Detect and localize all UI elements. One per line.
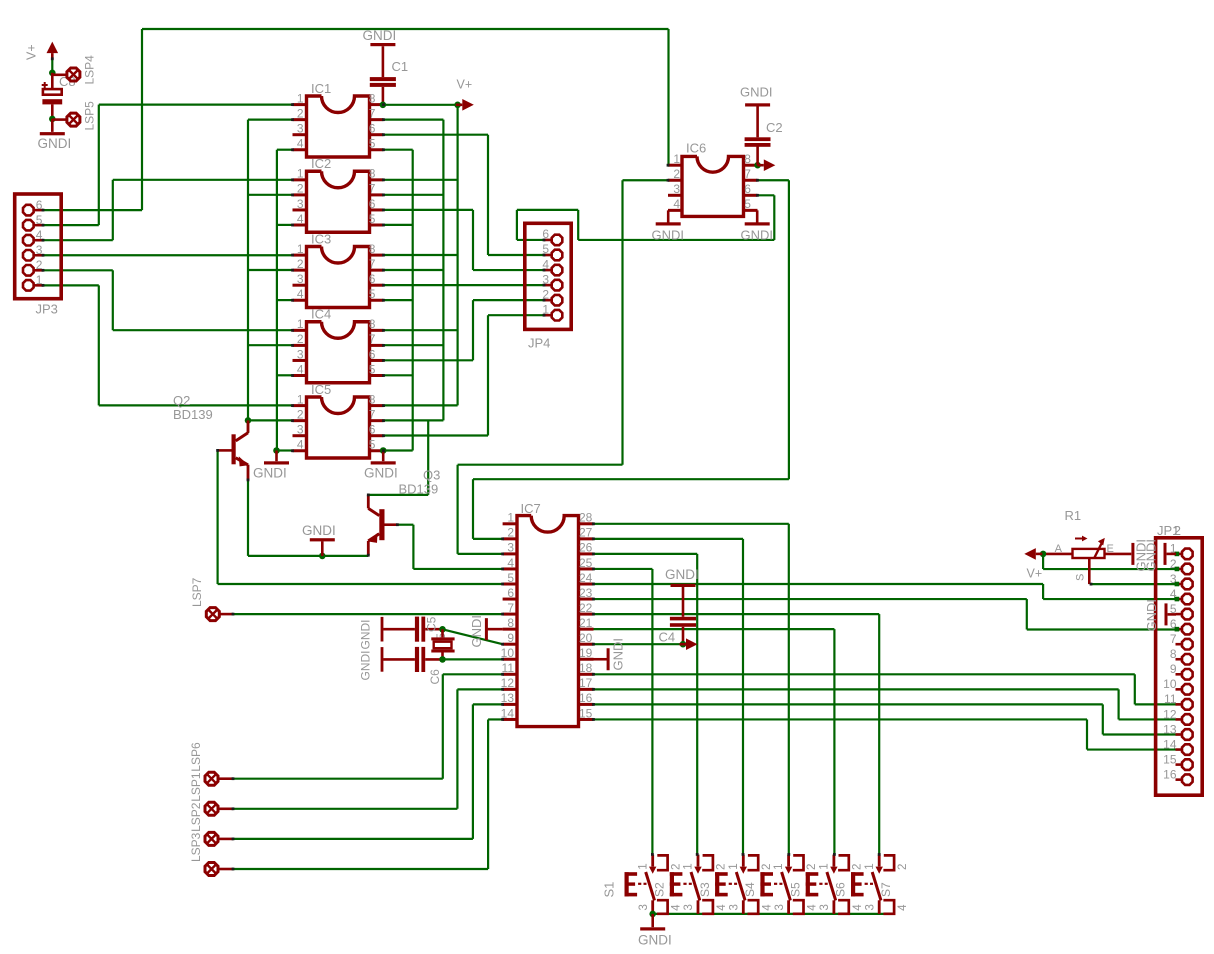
svg-text:1: 1 [864,863,876,869]
svg-text:2: 2 [297,182,304,196]
svg-text:1: 1 [683,863,695,869]
svg-text:6: 6 [507,586,514,600]
svg-text:6: 6 [744,182,751,196]
svg-text:4: 4 [297,212,304,226]
svg-text:A: A [1055,543,1063,555]
svg-text:7: 7 [369,257,376,271]
svg-text:LSP1: LSP1 [189,772,203,802]
svg-text:LSP7: LSP7 [190,577,204,607]
svg-text:2: 2 [297,106,304,120]
svg-text:11: 11 [1164,692,1177,706]
svg-text:GNDI: GNDI [740,85,773,100]
svg-text:S7: S7 [879,882,893,897]
svg-text:1: 1 [297,317,304,331]
svg-text:23: 23 [579,586,593,600]
svg-text:4: 4 [297,287,304,301]
svg-text:5: 5 [369,137,376,151]
svg-text:14: 14 [1163,737,1177,751]
svg-text:GNDI: GNDI [38,136,72,151]
svg-text:5: 5 [369,438,376,452]
svg-text:18: 18 [579,661,593,675]
svg-text:3: 3 [297,122,304,136]
svg-text:7: 7 [744,167,751,181]
svg-text:2: 2 [297,407,304,421]
svg-text:3: 3 [297,423,304,437]
svg-text:7: 7 [369,106,376,120]
svg-text:GNDI: GNDI [253,466,287,481]
svg-text:GNDI: GNDI [364,466,398,481]
svg-text:8: 8 [369,317,376,331]
svg-text:8: 8 [744,152,751,166]
svg-text:LSP2: LSP2 [189,802,203,832]
svg-text:16: 16 [1163,767,1177,781]
svg-text:LSP3: LSP3 [189,832,203,862]
svg-text:1: 1 [637,863,649,869]
svg-text:4: 4 [297,362,304,376]
svg-text:15: 15 [1163,752,1177,766]
svg-text:2: 2 [1174,523,1181,538]
svg-text:GNDI: GNDI [359,651,373,681]
svg-text:12: 12 [1163,707,1177,721]
svg-text:8: 8 [369,167,376,181]
svg-text:6: 6 [369,197,376,211]
svg-text:GNDI: GNDI [1144,539,1159,572]
svg-text:S1: S1 [602,882,617,898]
svg-text:27: 27 [579,526,593,540]
svg-text:V+: V+ [1027,567,1043,581]
svg-text:22: 22 [579,601,593,615]
svg-text:BD139: BD139 [399,482,439,497]
svg-text:6: 6 [369,347,376,361]
svg-text:8: 8 [369,91,376,105]
svg-text:1: 1 [297,392,304,406]
svg-text:4: 4 [673,197,680,211]
svg-text:1: 1 [297,91,304,105]
svg-text:24: 24 [579,571,593,585]
svg-text:GNDI: GNDI [611,638,626,671]
svg-text:7: 7 [369,182,376,196]
svg-text:9: 9 [507,631,514,645]
svg-text:19: 19 [579,646,593,660]
svg-text:4: 4 [852,904,864,911]
svg-text:21: 21 [579,616,593,630]
svg-text:BD139: BD139 [173,407,213,422]
svg-text:4: 4 [507,556,514,570]
svg-text:3: 3 [819,904,831,910]
svg-text:7: 7 [507,601,514,615]
svg-text:15: 15 [579,706,593,720]
svg-text:IC7: IC7 [521,501,541,516]
svg-text:Q2: Q2 [173,393,190,408]
svg-text:4: 4 [807,904,819,911]
svg-text:26: 26 [579,541,593,555]
svg-text:JP4: JP4 [528,336,550,351]
svg-text:JP3: JP3 [36,302,58,317]
svg-text:GNDI: GNDI [665,567,699,582]
svg-text:LSP5: LSP5 [83,101,97,131]
svg-text:1: 1 [297,242,304,256]
svg-text:C4: C4 [659,630,676,645]
svg-text:GNDI: GNDI [652,228,685,243]
svg-text:GNDI: GNDI [469,615,484,648]
svg-text:4: 4 [671,904,683,911]
svg-text:V+: V+ [25,44,39,60]
svg-text:1: 1 [819,863,831,869]
svg-text:10: 10 [1163,677,1177,691]
svg-text:16: 16 [579,691,593,705]
svg-text:C2: C2 [766,120,783,135]
svg-text:LSP6: LSP6 [189,742,203,772]
svg-text:GNDI: GNDI [363,28,397,43]
svg-text:7: 7 [369,407,376,421]
svg-text:4: 4 [761,904,773,911]
svg-text:8: 8 [1170,647,1177,661]
svg-text:3: 3 [673,182,680,196]
svg-text:1: 1 [507,511,514,525]
svg-text:1: 1 [673,152,680,166]
svg-text:S: S [1075,574,1087,581]
svg-text:17: 17 [579,676,593,690]
svg-text:5: 5 [369,287,376,301]
svg-text:5: 5 [507,571,514,585]
svg-text:6: 6 [369,122,376,136]
svg-text:2: 2 [761,864,773,870]
svg-text:R1: R1 [1065,508,1082,523]
svg-text:IC6: IC6 [686,141,706,156]
svg-text:4: 4 [897,904,909,911]
svg-text:3: 3 [297,272,304,286]
svg-text:9: 9 [1170,662,1177,676]
svg-text:3: 3 [297,347,304,361]
svg-text:6: 6 [369,272,376,286]
svg-text:3: 3 [774,904,786,910]
svg-text:2: 2 [716,864,728,870]
svg-text:8: 8 [369,242,376,256]
svg-text:2: 2 [507,526,514,540]
svg-text:GNDI: GNDI [638,933,672,948]
svg-text:4: 4 [297,137,304,151]
svg-text:2: 2 [852,864,864,870]
svg-text:8: 8 [369,392,376,406]
svg-text:GNDI: GNDI [741,228,774,243]
svg-text:V+: V+ [457,78,473,92]
svg-text:2: 2 [297,332,304,346]
svg-text:C1: C1 [392,59,409,74]
svg-text:28: 28 [579,511,593,525]
svg-text:GNDI: GNDI [359,620,373,650]
svg-text:C6: C6 [428,669,442,685]
svg-text:S6: S6 [834,882,848,897]
svg-text:S3: S3 [698,882,712,897]
svg-text:GNDI: GNDI [302,523,336,538]
svg-text:IC1: IC1 [311,81,331,96]
svg-text:3: 3 [683,904,695,910]
svg-text:C5: C5 [425,616,439,632]
svg-text:3: 3 [507,541,514,555]
svg-text:E: E [1107,543,1114,555]
svg-text:7: 7 [1170,632,1177,646]
svg-text:IC5: IC5 [311,382,331,397]
svg-text:20: 20 [579,631,593,645]
svg-text:1: 1 [773,863,785,869]
svg-text:3: 3 [638,904,650,910]
svg-text:1: 1 [297,167,304,181]
svg-text:5: 5 [744,197,751,211]
svg-text:1: 1 [728,863,740,869]
svg-text:5: 5 [369,212,376,226]
svg-text:4: 4 [297,438,304,452]
svg-text:4: 4 [716,904,728,911]
svg-text:5: 5 [369,362,376,376]
svg-text:S2: S2 [653,882,667,897]
svg-text:13: 13 [1163,722,1177,736]
svg-text:2: 2 [806,864,818,870]
svg-text:25: 25 [579,556,593,570]
svg-text:IC3: IC3 [311,231,331,246]
svg-text:8: 8 [507,616,514,630]
svg-text:3: 3 [864,904,876,910]
svg-text:2: 2 [297,257,304,271]
svg-text:6: 6 [369,423,376,437]
svg-text:3: 3 [729,904,741,910]
svg-text:LSP4: LSP4 [83,55,97,85]
svg-text:3: 3 [297,197,304,211]
svg-text:7: 7 [369,332,376,346]
svg-text:2: 2 [897,864,909,870]
svg-text:IC2: IC2 [311,156,331,171]
svg-text:S4: S4 [743,882,757,897]
svg-text:GNDI: GNDI [1144,599,1159,632]
svg-text:S5: S5 [788,882,802,897]
svg-text:Q3: Q3 [423,468,440,483]
svg-text:2: 2 [670,864,682,870]
svg-text:IC4: IC4 [311,307,331,322]
svg-text:2: 2 [673,167,680,181]
